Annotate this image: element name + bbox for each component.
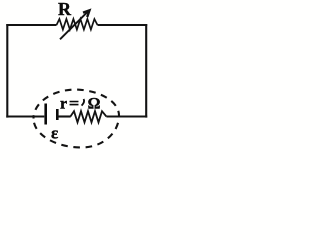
wire: left vertical side of loop — [6, 24, 8, 118]
svg-text:Ω: Ω — [88, 96, 101, 113]
label 1 (of r=1Ω, rendered as thin curved stroke) — [82, 99, 84, 106]
svg-text:r: r — [60, 96, 67, 113]
wire: top right horizontal segment — [98, 24, 148, 26]
svg-text:=: = — [69, 96, 79, 113]
battery cell: short plate (negative) — [56, 109, 59, 120]
dashed oval around battery (cell boundary) — [34, 90, 120, 148]
battery cell: long plate (positive) — [44, 104, 47, 125]
wire: bottom right horizontal segment — [106, 115, 147, 117]
wire: top left horizontal segment — [6, 24, 56, 26]
rheostat arrowhead — [83, 10, 90, 17]
wire: short plate to internal resistor — [57, 115, 70, 117]
rheostat arrow shaft through R — [60, 12, 88, 40]
wire: right vertical side of loop — [145, 24, 147, 118]
internal resistance r zigzag — [70, 111, 106, 122]
svg-text:ε: ε — [51, 124, 58, 143]
resistor R zigzag (variable resistor body) — [57, 19, 98, 30]
svg-text:R: R — [58, 0, 72, 19]
wire: bottom left horizontal segment — [6, 115, 44, 117]
